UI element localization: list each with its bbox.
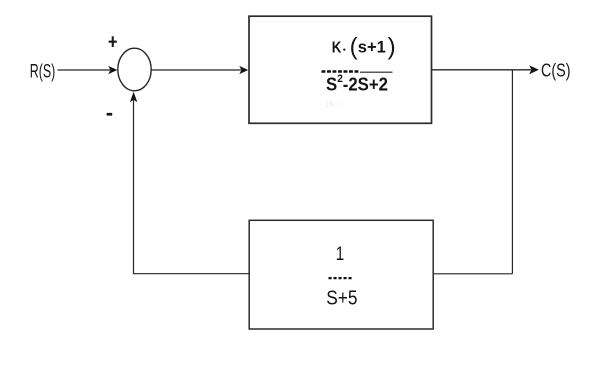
svg-text:K: K	[332, 40, 342, 57]
arrowhead into summing junction bottom	[130, 92, 137, 102]
block H(s) : 1/(S+5)	[249, 220, 433, 329]
wire: summing junction to forward block	[151, 69, 241, 71]
summing junction	[118, 48, 151, 91]
svg-text:(: (	[350, 33, 358, 60]
svg-text:s+1: s+1	[358, 39, 386, 57]
arrowhead into summing junction left	[108, 66, 117, 74]
svg-text:··(s···: ··(s···	[319, 99, 344, 109]
svg-text:): )	[388, 33, 396, 60]
fraction bar dashed segment in block G	[322, 70, 361, 73]
svg-text:S+5: S+5	[326, 287, 357, 309]
wire: feedback branch down from output node	[511, 70, 513, 274]
wire: down branch to feedback block H	[434, 273, 513, 275]
arrowhead at output C(S)	[529, 65, 539, 74]
svg-text:C(S): C(S)	[541, 59, 571, 80]
svg-text:S2-2S+2: S2-2S+2	[326, 73, 388, 95]
fraction bar dashed in block H	[329, 277, 353, 279]
svg-text:R(S): R(S)	[30, 61, 56, 83]
wire: block G to output node	[432, 69, 531, 71]
wire: feedback block H to left run	[134, 273, 250, 275]
minus sign at summing junction	[107, 113, 113, 116]
fraction bar solid segment in block G	[360, 71, 393, 73]
arrowhead into forward block	[239, 66, 248, 74]
svg-text:1: 1	[336, 244, 344, 265]
plus sign at summing junction	[109, 36, 117, 47]
wire: R(S) to summing junction	[58, 69, 111, 71]
label: numerator K.(s+1)	[332, 33, 396, 60]
block G(s) : K(s+1)/(S^2-2S+2)	[249, 16, 432, 123]
wire: feedback up to summing junction	[133, 97, 135, 274]
